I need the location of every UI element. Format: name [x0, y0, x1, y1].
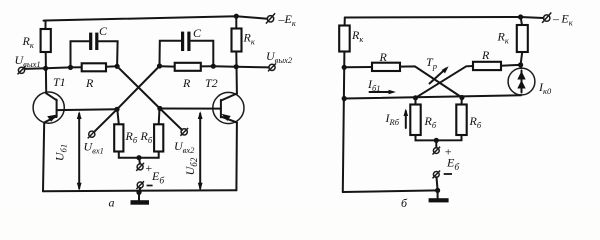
terminal Eb minus (a) — [137, 182, 143, 188]
wire: Uout1 terminal to collector node (a) — [25, 67, 46, 70]
junction: Eb plus node (a) — [136, 155, 141, 160]
svg-text:R: R — [379, 50, 388, 64]
junction: Ib1 row node left (b) — [342, 96, 347, 101]
label minus (a) — [147, 185, 153, 187]
wire: C2 left node to R2 (a) — [160, 65, 175, 67]
terminal Uout2 (a) — [269, 64, 275, 70]
junction: C1/R1 left node (a) — [68, 65, 73, 70]
junction: ground node (a) — [136, 190, 141, 195]
terminal Eb minus (b) — [433, 172, 439, 178]
junction: lower wire node left (b) — [413, 95, 418, 100]
wire: C2 loop right riser (a) — [191, 41, 213, 66]
terminal -Ek (a) — [267, 16, 273, 22]
wire: C1 loop right riser (a) — [98, 41, 117, 66]
junction: ground node (b) — [435, 188, 440, 193]
junction: Eb plus node (b) — [434, 138, 439, 143]
junction: collector node T1 / Uout1 (a) — [43, 66, 48, 71]
junction: C1/R1 right node (a) — [115, 64, 120, 69]
wire: top rail -Ek (b) — [345, 17, 544, 18]
junction: C2/R2 left node (a) — [157, 63, 162, 68]
resistor Rb1 (a) — [114, 124, 123, 151]
wire: lower horizontal Ib1 row (b) — [344, 95, 521, 98]
wire: rail drop to Rk right (b) — [521, 17, 522, 25]
resistor Rk right (b) — [517, 25, 528, 52]
transistor T1 (a) — [33, 92, 64, 123]
resistor Rk2 (a) — [232, 29, 242, 52]
wire: R right to Tr diagonal (b) — [416, 66, 474, 98]
svg-text:а: а — [109, 196, 115, 210]
junction: T2 base node (a) — [157, 106, 162, 111]
wire: Rk2 bottom to T2 collector (a) — [235, 52, 238, 94]
wire: left rail drop to Rk (b) — [344, 18, 346, 26]
measure arrow Ub1 (a) — [77, 111, 82, 190]
transistor T2 (a) — [213, 92, 244, 123]
junction: collector node T2 / Uout2 (a) — [234, 64, 239, 69]
svg-text:б: б — [401, 196, 408, 210]
wire: bottom rail (a) — [43, 190, 236, 191]
wire: Rb right top stub (b) — [461, 98, 463, 105]
wire: Rb2 top stub (a) — [158, 109, 161, 125]
wire: R2 to right node (a) — [201, 65, 214, 67]
junction: top rail over Rk right (b) — [518, 14, 523, 19]
resistor R1 (a) — [82, 63, 106, 71]
wire: R2C2 right node to collector node T2 (a) — [213, 65, 236, 68]
terminal Uout1 (a) — [18, 67, 24, 73]
wire: bottom rail (b) — [343, 190, 438, 192]
wire: R left to Tr diagonal (b) — [400, 66, 462, 97]
terminal Uin2 (a) — [181, 129, 187, 135]
wire: Rb bottoms joined (a) — [119, 152, 159, 158]
resistor R left (b) — [372, 63, 400, 71]
wire: Rk1 bottom to T1 collector (a) — [45, 52, 48, 93]
wire: left node to R1 (a) — [71, 66, 82, 68]
wire: T2 base node to Uin2 terminal (a) — [160, 109, 182, 130]
resistor Rb right (b) — [456, 105, 466, 136]
svg-text:T1: T1 — [53, 75, 66, 89]
junction: C2/R2 right node (a) — [211, 64, 216, 69]
junction: current source top node (b) — [518, 62, 523, 67]
resistor R right (b) — [473, 62, 501, 70]
wire: cross-coupling diagonal from R2C2 node to T1 base node (a) — [117, 66, 160, 109]
resistor Rk left (b) — [339, 26, 350, 52]
wire: collector node to C1/R1 left node (a) — [46, 66, 71, 69]
wire: Rb left top stub (b) — [415, 98, 417, 105]
wire: stub Eb minus to bottom rail (a) — [138, 188, 141, 193]
svg-text:R: R — [182, 76, 191, 90]
measure arrow Ub2 (a) — [198, 111, 203, 190]
capacitor C1 (a) — [89, 33, 92, 50]
wire: C1 loop left riser (a) — [71, 41, 89, 67]
capacitor C2 (a) — [181, 32, 184, 51]
wire: C2 loop left riser (a) — [160, 41, 182, 66]
resistor Rb2 (a) — [154, 124, 163, 151]
wire: T2 emitter drop (a) — [235, 123, 238, 191]
terminal Eb plus (a) — [137, 164, 143, 170]
svg-text:R: R — [481, 48, 490, 62]
terminal Uin1 (a) — [89, 131, 95, 137]
wire: Eb minus stub to bottom rail (b) — [437, 177, 438, 190]
junction: lower wire node right (b) — [459, 95, 464, 100]
wire: stub to Eb plus terminal (b) — [435, 140, 437, 147]
wire: T1 base lead (a) — [57, 108, 117, 111]
wire: T1 base node to Uin1 terminal (a) — [94, 109, 117, 132]
terminal Eb plus (b) — [433, 148, 439, 154]
arrow across Tr crossing (b) — [430, 66, 449, 83]
wire: Rb bottoms joined (b) — [416, 135, 462, 140]
wire: top rail -Ek (a) — [44, 16, 268, 20]
wire: R right to Rk/current source node (b) — [501, 64, 521, 67]
svg-text:T2: T2 — [205, 76, 218, 90]
wire: Rk right bottom to node (b) — [521, 52, 523, 65]
resistor Rb left (b) — [410, 105, 420, 136]
current arrow IRb (b) — [404, 109, 409, 129]
svg-text:C: C — [99, 24, 108, 38]
junction: T1 base node (a) — [114, 107, 119, 112]
wire: rail drop to Rk2 (a) — [235, 16, 237, 28]
svg-text:C: C — [193, 26, 202, 40]
ground (a) — [131, 192, 150, 204]
wire: T2 base lead (a) — [160, 108, 221, 110]
terminal -Ek (b) — [544, 15, 550, 21]
wire: collector node to Uout2 terminal (a) — [236, 66, 269, 69]
ground (b) — [429, 190, 449, 202]
resistor R2 (a) — [175, 63, 201, 71]
current arrow Ib1 (b) — [370, 90, 397, 95]
resistor Rk1 (a) — [41, 29, 51, 52]
wire: T1 emitter drop (a) — [43, 123, 44, 192]
svg-text:R: R — [85, 76, 94, 90]
wire: left node to R left body (b) — [344, 66, 372, 68]
wire: left vertical below Rk (b) — [343, 52, 345, 193]
current source Ik0 (b) — [508, 65, 535, 95]
wire: Rb1 top stub (a) — [117, 109, 119, 124]
label minus (b) — [444, 173, 452, 175]
junction: R row node left (b) — [342, 65, 347, 70]
junction: top rail over Rk2 (a) — [234, 14, 239, 19]
wire: cross-coupling diagonal from R1C1 node to T2 base node (a) — [117, 66, 160, 108]
wire: left drop from rail to Rk1 (a) — [45, 21, 47, 30]
wire: stub to Eb plus terminal (a) — [138, 158, 141, 164]
wire: R1 to right node (a) — [106, 65, 117, 68]
